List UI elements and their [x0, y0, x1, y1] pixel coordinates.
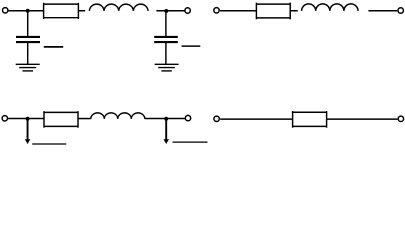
current arrow (right, pointing down)	[163, 119, 169, 144]
value label (blank underline) for right arrow	[173, 141, 208, 143]
wire	[156, 10, 185, 12]
inductor L3 (series, 4 loops)	[91, 113, 145, 119]
wire	[145, 118, 185, 120]
terminal (right port, top-right circuit)	[398, 8, 403, 13]
terminal (left port, top-right circuit)	[214, 8, 219, 13]
wire	[368, 10, 397, 12]
wire (right capacitor top lead)	[165, 11, 167, 36]
terminal (right port, bottom-right circuit)	[398, 116, 403, 121]
resistor R2 (series box)	[256, 3, 290, 20]
terminal (right port, bottom-left circuit)	[185, 115, 190, 120]
current arrow (left, pointing down)	[25, 119, 31, 144]
wire	[327, 118, 398, 120]
terminal (left port, bottom-right circuit)	[214, 116, 219, 121]
resistor R3 (series box)	[44, 111, 78, 128]
wire	[8, 10, 43, 12]
resistor R1 (series box)	[44, 3, 79, 19]
terminal (right port, top-left circuit)	[185, 8, 190, 13]
wire (left capacitor bottom lead)	[27, 43, 29, 64]
value label (blank underline) for left arrow	[32, 143, 66, 145]
inductor L2 (series, 4 loops)	[302, 4, 358, 11]
terminal (left port, bottom-left circuit)	[2, 116, 7, 121]
node (junction dot, left current arrow)	[26, 117, 30, 121]
value label (blank underline) for C1	[44, 46, 63, 48]
ground (left)	[16, 64, 40, 71]
node (junction dot, right current arrow)	[164, 117, 168, 121]
terminal (left port, top-left circuit)	[2, 8, 7, 13]
resistor R4 (series box)	[293, 111, 327, 128]
ground (right)	[155, 64, 179, 71]
capacitor C1 (left shunt)	[16, 37, 40, 42]
capacitor C2 (right shunt)	[154, 37, 178, 42]
inductor L1 (series, 4 loops)	[89, 4, 148, 11]
node (junction dot, left shunt branch)	[26, 9, 30, 13]
wire	[8, 118, 44, 120]
wire (stub resistor to inductor)	[78, 10, 85, 12]
node (junction dot, right shunt branch)	[164, 9, 168, 13]
value label (blank underline) for C2	[182, 45, 201, 47]
wire (stub resistor to inductor)	[290, 10, 298, 12]
wire (left capacitor top lead)	[27, 11, 29, 36]
wire (right capacitor bottom lead)	[165, 43, 167, 64]
wire	[220, 118, 292, 120]
wire	[220, 10, 256, 12]
wire (resistor to inductor)	[78, 118, 91, 120]
